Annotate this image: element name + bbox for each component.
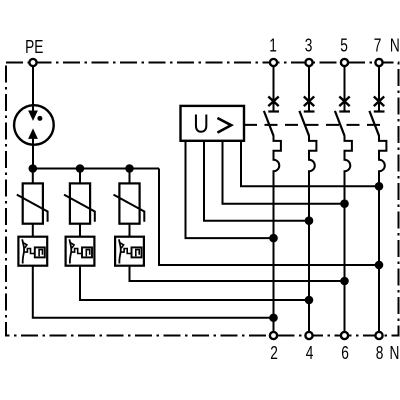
integrated disconnector (X) pole 1: [268, 97, 278, 107]
overcurrent release and coil pole 1: [274, 136, 281, 332]
wire: terminal 5 to contact: [344, 66, 346, 112]
terminal 7 (top): [375, 59, 382, 66]
wire: bus to varistor 2: [79, 169, 81, 184]
contact blade pole 7: [369, 111, 379, 136]
wire: U> output 3 to pole line 344.5: [223, 141, 345, 204]
wire: terminal PE down to spark gap: [32, 66, 34, 106]
terminal 1 (top): [270, 59, 277, 66]
integrated disconnector (X) pole 7: [374, 97, 384, 107]
terminal 3 (top): [305, 59, 312, 66]
wire: U> output 1 to pole line 273.5: [186, 141, 274, 238]
junction: pole line / U> output 2: [305, 216, 314, 225]
contact blade pole 3: [299, 111, 309, 136]
mechanical linkage (dashed) from U> to breaker poles: [244, 124, 380, 126]
terminal 8 (bottom): [375, 332, 382, 339]
integrated disconnector (X) pole 5: [339, 97, 349, 107]
contact blade pole 1: [264, 111, 274, 136]
terminal 4 (bottom): [305, 332, 312, 339]
junction: PE bus / varistor 2: [76, 164, 85, 173]
spark gap (N-PE gas discharge tube): [14, 105, 54, 145]
terminal 5 (top): [341, 59, 348, 66]
enclosure boundary (dash-dot frame): [6, 63, 399, 336]
svg-text:U: U: [193, 110, 209, 139]
wire: terminal 1 to contact: [273, 66, 275, 112]
svg-text:2: 2: [270, 343, 278, 363]
wire: disconnector 2 to pole line 309.0: [80, 266, 309, 300]
overcurrent release and coil pole 7: [379, 136, 386, 332]
varistor 3 (MOV): [114, 183, 145, 223]
junction: pole line / disconnector 2 wire: [305, 296, 314, 305]
wire: U> output 2 to pole line 309.0: [204, 141, 309, 221]
contact blade pole 5: [335, 111, 345, 136]
wire: disconnector 1 to pole line 273.5: [33, 266, 274, 318]
thermal disconnector / surge indicator box 2: [66, 237, 95, 266]
svg-text:8: 8: [376, 343, 384, 363]
integrated disconnector (X) pole 3: [304, 97, 314, 107]
svg-text:3: 3: [305, 36, 313, 56]
junction: pole line / U> output 3: [340, 199, 349, 208]
thermal disconnector / surge indicator box 3: [115, 237, 144, 266]
overcurrent release and coil pole 3: [309, 136, 316, 332]
svg-text:4: 4: [306, 343, 314, 363]
terminal 6 (bottom): [341, 332, 348, 339]
terminal PE: [29, 59, 36, 66]
wire: spark gap to PE bus: [32, 145, 34, 169]
fixed contact bar pole 1: [268, 110, 279, 112]
wire: varistor 2 to disconnector 2: [79, 224, 81, 237]
svg-text:PE: PE: [25, 37, 43, 57]
wire: terminal 3 to contact: [308, 66, 310, 112]
varistor 2 (MOV): [64, 183, 95, 223]
junction: PE bus / varistor 1: [29, 164, 38, 173]
junction: N pole line / PE bus wire: [375, 261, 384, 270]
wire: PE bus over to N pole line: [159, 169, 379, 266]
fixed contact bar pole 7: [374, 110, 385, 112]
junction: pole line / disconnector 3 wire: [340, 277, 349, 286]
wire: bus to varistor 3: [129, 169, 131, 184]
junction: pole line / disconnector 1 wire: [269, 313, 278, 322]
svg-text:5: 5: [340, 36, 348, 56]
junction: pole line / U> output 1: [269, 234, 278, 243]
wire: varistor 1 to disconnector 1: [32, 224, 34, 237]
junction: pole line / U> output 4: [375, 182, 384, 191]
varistor 1 (MOV): [17, 183, 48, 223]
PE bus wire: [33, 168, 159, 170]
svg-text:N: N: [390, 343, 400, 363]
fixed contact bar pole 5: [339, 110, 350, 112]
wire: U> output 4 to pole line 379.0: [241, 141, 379, 187]
wire: terminal 7 to contact: [378, 66, 380, 112]
thermal disconnector / surge indicator box 1: [18, 237, 47, 266]
wire: varistor 3 to disconnector 3: [129, 224, 131, 237]
wire: disconnector 3 to pole line 344.5: [130, 266, 345, 281]
terminal 2 (bottom): [270, 332, 277, 339]
svg-text:N: N: [390, 36, 400, 56]
wire: bus to varistor 1: [32, 169, 34, 184]
junction: PE bus / varistor 3: [125, 164, 134, 173]
svg-text:7: 7: [374, 36, 382, 56]
svg-text:6: 6: [341, 343, 349, 363]
svg-text:1: 1: [269, 36, 277, 56]
voltage monitor U>: [181, 106, 245, 141]
overcurrent release and coil pole 5: [345, 136, 352, 332]
fixed contact bar pole 3: [304, 110, 315, 112]
